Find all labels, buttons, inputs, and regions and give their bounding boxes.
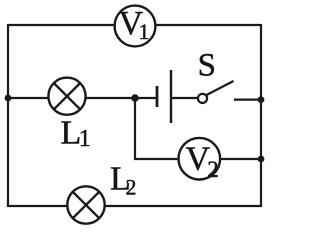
wire left side <box>7 24 9 207</box>
wire V2 branch vertical <box>134 98 136 159</box>
svg-text:S: S <box>198 48 216 84</box>
junction node right V2 <box>258 156 265 163</box>
junction node right switch contact <box>258 96 265 103</box>
switch lever <box>207 81 234 95</box>
wire V2 branch horizontal left <box>134 158 199 160</box>
wire V2 to right side <box>199 158 261 160</box>
voltmeter V1 <box>115 5 156 46</box>
wire top side <box>8 24 261 26</box>
battery cell long plate <box>170 70 172 123</box>
svg-text:1: 1 <box>79 126 91 152</box>
switch S pivot circle <box>198 94 207 103</box>
wire right side <box>260 24 262 207</box>
svg-text:2: 2 <box>126 175 137 200</box>
lamp L2 <box>67 186 104 223</box>
junction node battery/V2 tap <box>131 94 139 102</box>
svg-text:2: 2 <box>207 157 219 182</box>
label L1 <box>61 115 91 153</box>
wire battery to switch <box>171 97 198 99</box>
wire bottom side <box>8 205 261 207</box>
junction node left <box>5 95 12 102</box>
label L2 <box>110 161 137 200</box>
wire middle branch left <box>8 97 156 99</box>
battery cell short plate <box>156 86 159 107</box>
wire switch contact right <box>234 98 261 100</box>
lamp L1 <box>48 78 85 115</box>
voltmeter V2 <box>179 138 221 182</box>
svg-text:1: 1 <box>139 19 150 44</box>
